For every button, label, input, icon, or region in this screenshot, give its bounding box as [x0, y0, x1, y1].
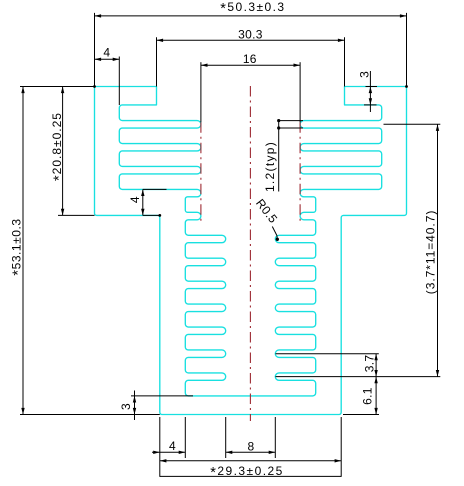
svg-text:4: 4	[103, 46, 110, 60]
node dot left step corner	[158, 214, 161, 217]
dim (3.7*11=40.7) fin array	[384, 123, 441, 125]
dim 3 bottom slab	[131, 395, 193, 397]
dim 16 fin-tip opening	[200, 62, 202, 122]
svg-text:3.7: 3.7	[362, 355, 376, 373]
svg-text:3: 3	[119, 403, 133, 410]
dim 4 slab above step	[143, 188, 167, 190]
svg-text:1.2(typ): 1.2(typ)	[263, 141, 277, 192]
dim 6.1 bottom to last fin	[343, 414, 379, 416]
dim 3 top-right lip thickness	[369, 71, 371, 112]
svg-text:16: 16	[243, 52, 257, 66]
svg-text:(3.7*11=40.7): (3.7*11=40.7)	[424, 210, 438, 295]
dim *29.3±0.25 body width	[159, 417, 161, 477]
dim *53.1±0.3 overall height	[20, 86, 95, 88]
vertical centerline	[249, 86, 251, 421]
svg-text:6.1: 6.1	[360, 387, 374, 405]
svg-text:4: 4	[169, 439, 176, 453]
left fin-tip centerline	[200, 122, 202, 221]
dim *20.8±0.25 flange height	[58, 214, 95, 216]
svg-text:30.3: 30.3	[238, 27, 263, 41]
dim 8 bottom fin-tip gap	[225, 417, 227, 458]
leader 1.2(typ) fin thickness	[279, 120, 303, 122]
leader R0.5 tip radius	[272, 227, 277, 240]
svg-text:4: 4	[128, 196, 142, 203]
dim 4 bottom wall	[184, 417, 186, 458]
svg-text:8: 8	[248, 440, 255, 454]
heatsink extrusion profile outline	[95, 87, 407, 415]
dim 3.7 fin pitch	[276, 353, 379, 355]
right fin-tip centerline	[299, 122, 301, 221]
dim *50.3±0.3 overall width	[94, 13, 96, 87]
svg-text:3: 3	[357, 71, 371, 78]
dim 4 top-left wall	[118, 57, 120, 106]
dim 30.3 lip opening	[156, 37, 158, 86]
node dot top-right corner	[405, 85, 408, 88]
node dot top-left corner	[93, 85, 96, 88]
